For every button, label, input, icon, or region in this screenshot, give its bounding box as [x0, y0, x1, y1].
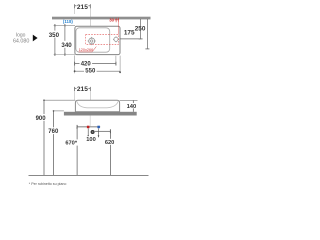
svg-text:420: 420	[81, 62, 92, 68]
svg-text:120x266: 120x266	[79, 48, 94, 52]
svg-text:620: 620	[105, 140, 115, 146]
svg-text:* Per rubinetto su piano: * Per rubinetto su piano	[29, 182, 67, 186]
svg-text:215: 215	[77, 4, 88, 11]
svg-text:logo: logo	[16, 32, 26, 38]
svg-text:250: 250	[135, 26, 146, 33]
svg-text:760: 760	[48, 129, 59, 135]
svg-text:140: 140	[127, 104, 137, 110]
svg-text:100: 100	[86, 137, 96, 143]
svg-text:350: 350	[49, 32, 60, 39]
svg-text:64.080: 64.080	[13, 38, 30, 44]
svg-text:900: 900	[36, 116, 47, 122]
svg-text:175: 175	[124, 29, 135, 36]
svg-text:670*: 670*	[65, 141, 77, 147]
svg-text:215: 215	[77, 86, 88, 93]
svg-text:30: 30	[109, 18, 114, 23]
svg-text:(118): (118)	[63, 19, 74, 24]
svg-text:340: 340	[61, 42, 72, 49]
svg-text:550: 550	[85, 69, 96, 75]
